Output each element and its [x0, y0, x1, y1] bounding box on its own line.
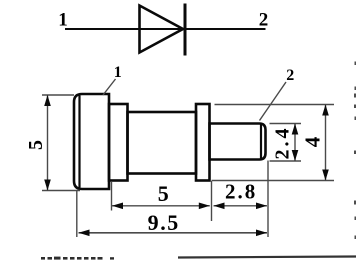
- svg-text:1: 1: [58, 10, 68, 31]
- svg-text:1: 1: [114, 64, 122, 81]
- svg-text:2: 2: [259, 10, 269, 31]
- dim 5 bottom dimension line: [112, 205, 210, 207]
- dim 5 left top extension line: [42, 94, 74, 96]
- wire anode lead: [65, 28, 184, 30]
- dim 4 dimension line: [325, 105, 327, 181]
- diode VD1 cathode bar: [184, 4, 187, 56]
- case collar right: [196, 104, 210, 181]
- svg-text:2: 2: [286, 67, 294, 84]
- dim 5 bottom right arrowhead: [199, 203, 210, 210]
- dim 2.8 right arrowhead: [256, 203, 267, 210]
- dim 2.4 bottom arrowhead: [292, 150, 299, 161]
- case flange outline: [74, 94, 109, 189]
- svg-text:2.4: 2.4: [272, 126, 294, 160]
- dim 2.4 bottom extension line: [270, 160, 302, 162]
- svg-text:9.5: 9.5: [148, 210, 180, 235]
- dim 4 top arrowhead: [322, 105, 329, 116]
- dim 4 top extension line: [215, 104, 335, 106]
- dim 9.5 left arrowhead: [79, 230, 90, 237]
- dim 2.8 dimension line: [214, 205, 268, 207]
- dim 5 bottom extension line left: [111, 182, 113, 211]
- dim 9.5 right arrowhead: [256, 230, 267, 237]
- case body cylinder: [128, 112, 197, 174]
- dim 2.8/9.5 right extension line: [267, 161, 269, 238]
- dim 9.5 dimension line: [79, 232, 268, 234]
- dim 2.4 dimension line: [294, 124, 296, 162]
- dim 4 bottom extension line: [212, 180, 335, 182]
- scan artifact clipped caption: [41, 257, 114, 260]
- case collar left: [109, 104, 128, 181]
- dim 2.4 top extension line: [270, 123, 302, 125]
- leader line to part 2: [260, 82, 287, 121]
- dim 5 left top arrowhead: [44, 95, 51, 106]
- dim 5 bottom left arrowhead: [112, 203, 123, 210]
- wire cathode lead: [185, 28, 266, 30]
- case stud tip face line: [260, 125, 262, 159]
- diode VD1 triangle: [140, 6, 184, 53]
- dim 5/2.8 shared extension line: [211, 181, 213, 221]
- dim 2.8 left arrowhead: [214, 203, 225, 210]
- case flange rim inner line: [78, 96, 80, 188]
- scan artifact bottom rule: [178, 257, 356, 258]
- dim 2.4 top arrowhead: [292, 124, 299, 135]
- dim 4 bottom arrowhead: [322, 170, 329, 181]
- dim 9.5 left extension line: [76, 190, 78, 237]
- svg-text:5: 5: [25, 140, 47, 150]
- dim 5 left dimension line: [47, 95, 49, 191]
- svg-text:4: 4: [301, 136, 325, 147]
- scan artifact right edge specks: [354, 62, 356, 240]
- svg-text:2.8: 2.8: [225, 179, 257, 203]
- case stud tip outline: [210, 124, 266, 160]
- dim 5 left bottom extension line: [42, 190, 80, 192]
- dim 5 left bottom arrowhead: [44, 180, 51, 191]
- svg-text:5: 5: [158, 181, 169, 206]
- leader line to part 1: [103, 79, 116, 95]
